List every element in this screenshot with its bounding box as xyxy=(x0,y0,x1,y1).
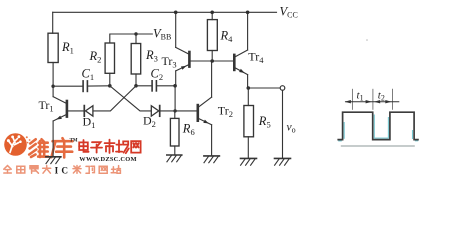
node R2 bottom junction xyxy=(108,84,112,88)
waveform tick line 1 xyxy=(351,89,353,110)
node R3 top junction xyxy=(134,32,137,35)
node Tr3 emitter / C2 junction xyxy=(173,84,177,88)
transistor Tr3 (PNP) xyxy=(176,47,190,71)
wire C2 left xyxy=(136,85,151,87)
wire C1 left branch xyxy=(53,85,82,87)
terminal output circle xyxy=(280,86,285,91)
wire R2 bottom xyxy=(109,73,111,86)
node R6 top junction xyxy=(173,109,176,112)
waveform cyan accents xyxy=(338,115,418,141)
wire Tr4 collector to rail xyxy=(247,12,249,50)
watermark big char wei xyxy=(29,139,48,157)
wire R5 bottom xyxy=(247,137,249,159)
node rail Tr3 junction xyxy=(174,11,178,15)
wire Tr1 emitter down xyxy=(52,121,54,157)
wire riser C2 node to D2 wire xyxy=(174,86,176,111)
wire R4 top stub xyxy=(211,12,213,19)
transistor Tr4 xyxy=(234,50,247,75)
watermark big char ku xyxy=(51,138,72,157)
wire C2 right xyxy=(157,85,175,87)
diode D2 xyxy=(151,106,159,117)
resistor R5 xyxy=(244,106,254,137)
wire R3 bottom xyxy=(135,74,137,86)
ground R5 xyxy=(241,158,257,165)
node R3 bottom junction xyxy=(134,84,138,88)
wire VCC top rail xyxy=(53,11,277,13)
wire vo line down xyxy=(282,90,284,158)
node C1 left junction xyxy=(51,85,54,88)
node rail R4 junction xyxy=(210,11,214,15)
wire R6 bottom xyxy=(174,146,176,155)
svg-text:IC: IC xyxy=(55,165,72,174)
waveform square wave trace xyxy=(337,112,418,139)
capacitor C1 xyxy=(83,81,87,92)
wire R6 top stub xyxy=(174,111,176,119)
ground Tr1 xyxy=(46,157,61,164)
resistor R3 xyxy=(131,44,141,75)
transistor Tr1 xyxy=(53,97,67,121)
svg-text:TM: TM xyxy=(70,139,78,144)
wire cross-coupling diagonal from R3 node to D1 side xyxy=(93,86,136,111)
wire cross-coupling diagonal from R2 node to D2 side xyxy=(110,86,151,111)
wire Tr3 collector to rail xyxy=(175,12,177,47)
wire Tr3 emitter down xyxy=(175,71,177,86)
node output junction xyxy=(247,86,251,90)
waveform dimension line with arrows xyxy=(345,101,399,103)
resistor R4 xyxy=(207,20,217,51)
watermark bottom row chars xyxy=(4,166,121,174)
resistor R1 xyxy=(48,33,58,62)
wire C1 right to node xyxy=(88,85,110,87)
diode D1 xyxy=(84,106,93,117)
wire Tr4 emitter down xyxy=(247,75,249,88)
wire R4 bottom stub xyxy=(211,51,213,62)
watermark chars dian zi shi chang wang xyxy=(79,140,140,154)
watermark logo disc xyxy=(4,133,30,156)
ground vo xyxy=(275,158,291,165)
node R4 bottom junction xyxy=(210,59,214,63)
waveform tick line 3 xyxy=(392,89,394,110)
stray speck xyxy=(366,39,368,41)
wire VBB line xyxy=(110,34,153,43)
wire Tr2 collector up xyxy=(211,61,213,97)
waveform tick line 2 xyxy=(372,89,374,110)
transistor Tr2 xyxy=(198,97,212,125)
wire base line Tr3 to Tr4 xyxy=(191,60,234,62)
wire R5 top stub xyxy=(247,88,249,106)
waveform axis line xyxy=(341,145,415,147)
wire R1 bottom to Tr1 collector xyxy=(52,63,54,97)
svg-text:WWW.DZSC.COM: WWW.DZSC.COM xyxy=(79,156,136,163)
ground Tr2 xyxy=(204,156,220,163)
wire output row xyxy=(248,87,281,89)
resistor R6 xyxy=(170,118,179,146)
wire D2 to Tr2 base xyxy=(160,110,197,112)
node rail Tr4 junction xyxy=(246,11,250,15)
wire left rail top (R1 to rail) xyxy=(52,12,54,33)
ground R6 xyxy=(167,155,182,162)
wire Tr2 emitter down xyxy=(211,125,213,156)
capacitor C2 xyxy=(152,81,156,91)
resistor R2 xyxy=(105,43,114,73)
wire Tr1 base to D1 xyxy=(68,110,84,112)
wire R3 top stub xyxy=(135,34,137,44)
